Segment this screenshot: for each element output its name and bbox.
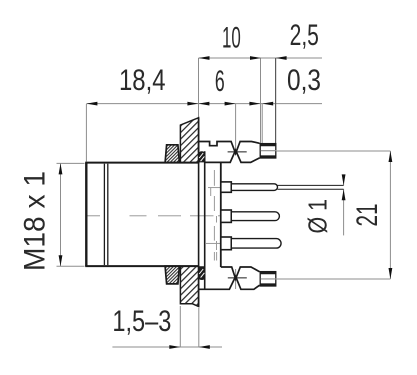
- nut upper (hatched): [165, 145, 179, 163]
- dimension line y=347 (1,5-3): [112, 346, 222, 348]
- extension line x=235.6: [235, 104, 237, 150]
- arrow diameter1 up: [342, 189, 346, 200]
- arrow 2,5 right outside: [276, 56, 287, 60]
- panel upper section (hatched): [180, 118, 198, 163]
- arrow 18,4 left: [86, 102, 97, 106]
- pin 1 collar: [221, 182, 232, 192]
- svg-text:M18 x 1: M18 x 1: [19, 171, 52, 271]
- arrow M18 top: [59, 163, 63, 174]
- pin 1 rod (diameter 1): [278, 184, 344, 186]
- arrow 21 bottom: [389, 268, 393, 279]
- centerline pin 1: [208, 187, 276, 189]
- extension line y=163.4 (M18 top): [57, 162, 85, 164]
- extension line x=180.3 below panel: [179, 306, 181, 347]
- flange back line: [204, 151, 206, 289]
- upper leg crimp waist line: [228, 151, 247, 153]
- arrow diameter1 down: [342, 174, 346, 185]
- extension line y=151.3 (21 top, through solder tail): [277, 150, 391, 152]
- svg-text:Ø 1: Ø 1: [303, 199, 333, 234]
- extension line x=198.5: [198, 58, 200, 118]
- pin 3 bar: [231, 239, 281, 249]
- pin 2 bar: [231, 212, 279, 221]
- pin 3 collar: [221, 237, 232, 250]
- cylinder body M18 thread front: [85, 163, 198, 267]
- arrow 18,4 right: [187, 102, 198, 106]
- extension line x=198.8 below panel: [198, 308, 200, 347]
- arrow 6 left: [198, 102, 209, 106]
- dimension line x=343.6 (diameter 1): [343, 176, 345, 185]
- centerline main axis: [86, 215, 278, 217]
- dimension line y=103.6 (18,4 / 6 / 0,3): [86, 103, 322, 105]
- arrow M18 bottom: [59, 255, 63, 266]
- nut lower (hatched): [165, 266, 179, 284]
- flange front line: [198, 118, 200, 307]
- extension line y=278.8 (21 bottom, through solder tail): [277, 278, 391, 280]
- thread relief double line: [103, 164, 105, 265]
- arrow 6 right: [225, 102, 236, 106]
- svg-text:6: 6: [215, 65, 225, 98]
- extension line x=262.2: [261, 104, 263, 144]
- svg-text:21: 21: [351, 204, 384, 227]
- dimension line x=60.5 (M18 x 1): [60, 163, 62, 266]
- svg-text:10: 10: [222, 21, 241, 54]
- gasket lower (black): [199, 266, 205, 280]
- upper mounting leg outline: [199, 142, 260, 154]
- extension line x=260.5: [260, 58, 262, 144]
- pin 2 collar: [221, 210, 232, 222]
- extension line y=266.2 (M18 bottom): [57, 265, 85, 267]
- arrow 1,5-3 right outside: [199, 345, 210, 349]
- panel lower section (hatched): [180, 266, 198, 306]
- lower mounting leg outline: [221, 267, 260, 279]
- extension line x=275.6: [275, 58, 277, 144]
- dimension line y=58 (10 / 2,5): [199, 57, 323, 59]
- extension line x=86.4: [85, 104, 87, 162]
- svg-text:18,4: 18,4: [119, 64, 166, 97]
- lower leg crimp waist line: [228, 277, 247, 279]
- internal contact hidden lines: [211, 170, 217, 261]
- extension line x=235.6 lower leg: [235, 269, 237, 289]
- svg-text:0,3: 0,3: [287, 64, 321, 97]
- gasket upper (black): [199, 151, 205, 162]
- svg-text:2,5: 2,5: [290, 19, 319, 52]
- arrow 0,3 right outside: [262, 102, 273, 106]
- pin 1 bar: [231, 184, 277, 191]
- svg-text:1,5–3: 1,5–3: [112, 305, 171, 338]
- arrow 21 top: [389, 151, 393, 162]
- arrow 1,5-3 left outside: [169, 345, 180, 349]
- arrow 10 left: [199, 56, 210, 60]
- arrow 0,3 left outside: [249, 102, 260, 106]
- lower solder tail: [260, 272, 276, 286]
- centerline pin 3: [206, 242, 277, 244]
- upper solder tail: [260, 144, 276, 158]
- housing rear edge: [220, 162, 222, 267]
- dimension line x=390.4 (21): [389, 151, 391, 279]
- arrow 10 right: [250, 56, 261, 60]
